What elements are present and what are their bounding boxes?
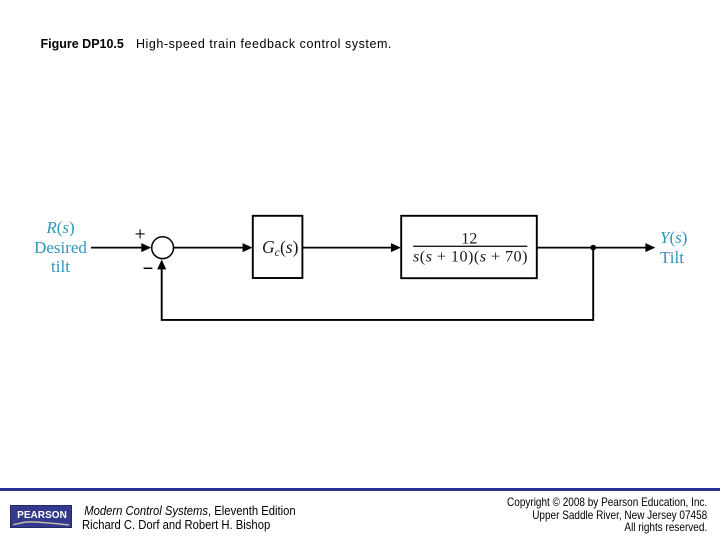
wire: summing junction to Gc block <box>174 247 243 249</box>
node label R(s) Desired tilt <box>34 218 87 276</box>
svg-text:R(s): R(s) <box>45 218 74 237</box>
block plant 12/s(s+10)(s+70) <box>401 216 537 278</box>
block Gc(s) controller <box>253 216 303 278</box>
svg-text:tilt: tilt <box>51 257 70 276</box>
minus sign <box>144 267 153 269</box>
summing junction <box>152 237 174 259</box>
arrowhead to output Y(s) <box>645 243 655 252</box>
logo swoosh <box>10 505 72 528</box>
svg-text:Y(s): Y(s) <box>660 228 687 247</box>
svg-text:Desired: Desired <box>34 238 87 257</box>
arrowhead into plant block <box>391 243 401 252</box>
Pearson logo <box>10 505 72 528</box>
plus sign <box>136 229 145 238</box>
wire: plant block to output <box>537 247 646 249</box>
footer separator line <box>0 488 720 491</box>
arrowhead feedback into summing junction <box>157 260 166 270</box>
block diagram <box>0 0 720 420</box>
fraction bar <box>413 245 527 247</box>
footer left text <box>82 504 296 532</box>
svg-text:12: 12 <box>461 230 477 248</box>
arrowhead into summing junction <box>141 243 151 252</box>
svg-text:s(s + 10)(s + 70): s(s + 10)(s + 70) <box>413 248 528 266</box>
wire: input R(s) to summing junction <box>91 247 142 249</box>
wire: Gc block to plant block <box>303 247 392 249</box>
svg-text:Gc(s): Gc(s) <box>262 237 299 259</box>
wire: feedback path (down, left, up) <box>162 248 594 320</box>
node: pickoff point junction dot <box>590 245 596 251</box>
title caption <box>41 37 392 51</box>
footer right text <box>507 497 707 536</box>
node label Y(s) Tilt <box>660 228 687 267</box>
arrowhead into Gc block <box>243 243 253 252</box>
svg-text:Tilt: Tilt <box>660 248 684 267</box>
